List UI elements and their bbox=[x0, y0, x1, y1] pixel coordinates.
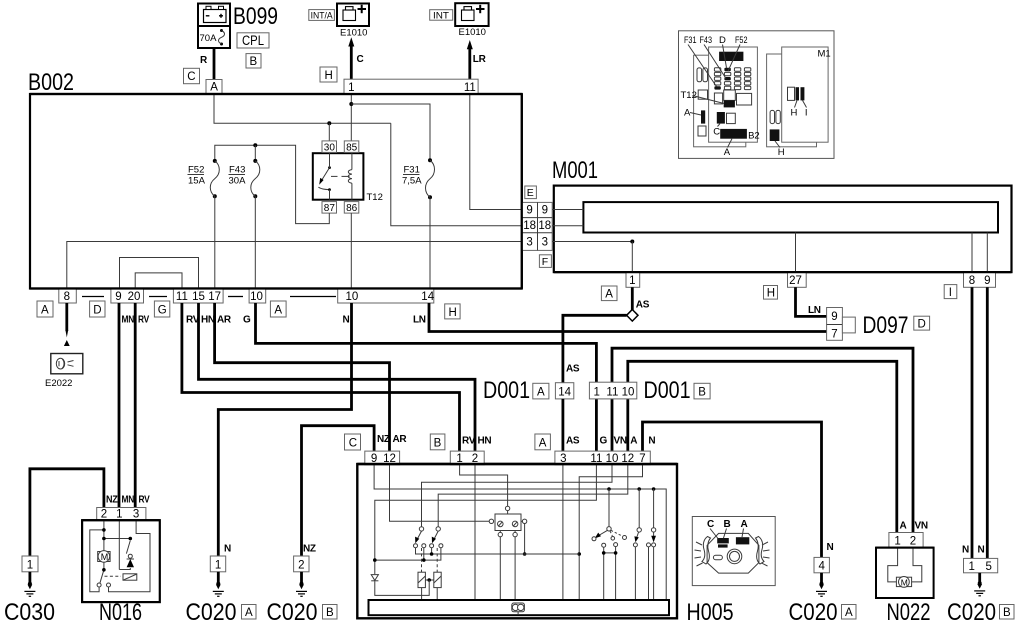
svg-text:3: 3 bbox=[526, 236, 532, 248]
label A box bottom-left bbox=[37, 301, 53, 317]
label H box under M001 bbox=[764, 286, 778, 300]
ground C020A1 bbox=[213, 572, 224, 597]
svg-text:A: A bbox=[900, 521, 907, 532]
node bus fan bbox=[607, 487, 611, 491]
wire C arrow to E1010 left bbox=[348, 37, 354, 79]
svg-text:D: D bbox=[918, 318, 926, 330]
wire R battery to B002 bbox=[213, 48, 216, 80]
svg-text:NZ: NZ bbox=[377, 434, 390, 445]
connector C030 pin 1 bbox=[22, 556, 38, 572]
pin A of B002 bbox=[206, 80, 222, 94]
svg-text:B2: B2 bbox=[748, 131, 760, 142]
B002 bottom pin box 8 bbox=[59, 289, 77, 304]
relay pin 30 label box bbox=[322, 141, 337, 153]
svg-text:30: 30 bbox=[324, 142, 336, 153]
wiper module box bbox=[357, 464, 677, 618]
label A box (pin10) bbox=[270, 301, 286, 317]
wire AS from M001 pin1 bbox=[631, 287, 634, 310]
node bus sw2 bbox=[637, 487, 641, 491]
svg-text:17: 17 bbox=[208, 291, 221, 303]
svg-text:B: B bbox=[326, 607, 334, 619]
svg-text:86: 86 bbox=[346, 203, 358, 214]
module strip C pins 9 12 bbox=[365, 451, 400, 465]
wire N M001 pin8 to C020B pin1 bbox=[971, 287, 974, 558]
svg-text:C: C bbox=[713, 127, 720, 138]
label I box under M001 bbox=[944, 285, 957, 299]
svg-text:1: 1 bbox=[894, 536, 900, 548]
relay T12 bbox=[313, 153, 383, 203]
wire row18 into M001 bbox=[552, 225, 583, 227]
wire C12 to motor left bbox=[390, 465, 490, 521]
wire HN B002 pin15 to module B2 bbox=[199, 303, 476, 451]
svg-text:INT: INT bbox=[433, 10, 450, 20]
svg-text:B: B bbox=[698, 387, 706, 399]
svg-text:15: 15 bbox=[192, 291, 205, 303]
wire A12 to park switch 2 bbox=[438, 465, 628, 527]
wire relay 30 drop bbox=[328, 123, 330, 141]
fuse F43 bbox=[229, 159, 260, 198]
label CPL bbox=[237, 33, 269, 48]
node battery/relay30 bbox=[327, 121, 331, 125]
diode module bbox=[371, 575, 378, 581]
svg-text:A: A bbox=[274, 305, 282, 317]
wire diode to resistors bbox=[375, 580, 429, 595]
label INT/A bbox=[309, 10, 335, 21]
wire NZ C020B pin2 to module C9 bbox=[302, 426, 375, 556]
svg-text:11: 11 bbox=[606, 386, 618, 398]
svg-text:1: 1 bbox=[215, 560, 221, 572]
wire M001 pin27 internal bbox=[795, 233, 797, 273]
wire A3 to pump bar bbox=[562, 465, 564, 600]
svg-text:1: 1 bbox=[27, 560, 33, 572]
connector D001B pins 1 11 10 bbox=[589, 382, 636, 399]
svg-text:A: A bbox=[210, 82, 218, 94]
wire A7 to bus right bbox=[579, 465, 642, 600]
node motor-bus bbox=[523, 552, 527, 556]
svg-text:LN: LN bbox=[413, 315, 426, 326]
wire battery feed inside B002 bbox=[214, 94, 391, 123]
node F43 top bbox=[253, 143, 257, 147]
svg-text:A: A bbox=[537, 387, 545, 399]
ground C020B2 bbox=[296, 572, 307, 597]
connector C020 B pin 2 bbox=[294, 556, 309, 572]
node bus sw3 bbox=[652, 487, 656, 491]
svg-text:N: N bbox=[978, 545, 985, 556]
horn icon E2022 bbox=[51, 354, 83, 374]
svg-text:E1010: E1010 bbox=[459, 27, 486, 38]
svg-text:AS: AS bbox=[636, 300, 650, 311]
svg-text:9: 9 bbox=[984, 275, 990, 287]
wire lower bus bbox=[375, 548, 441, 560]
svg-text:MN: MN bbox=[122, 495, 135, 506]
svg-text:N022: N022 bbox=[887, 599, 931, 625]
wire F52 to pin 17 bbox=[214, 196, 216, 288]
svg-text:RV: RV bbox=[462, 436, 476, 447]
label E box bbox=[525, 186, 537, 199]
M001 inner module bbox=[583, 202, 998, 232]
svg-text:A: A bbox=[741, 519, 748, 530]
svg-text:7,5A: 7,5A bbox=[402, 176, 422, 187]
M001 pin 1 box bbox=[626, 272, 640, 287]
svg-text:A: A bbox=[605, 289, 613, 301]
svg-text:B099: B099 bbox=[233, 3, 278, 30]
svg-text:D097: D097 bbox=[863, 312, 909, 339]
relay coil N016 bbox=[123, 574, 137, 580]
resistor 1 bbox=[418, 572, 425, 600]
node bus c3 bbox=[430, 552, 434, 556]
relay pin 86 label box bbox=[344, 202, 359, 214]
svg-text:4: 4 bbox=[818, 561, 825, 573]
relay N016 box bbox=[82, 520, 160, 602]
connector D097 pins 9 7 bbox=[827, 308, 856, 341]
node N016 a bbox=[102, 528, 106, 532]
svg-text:A: A bbox=[724, 147, 731, 158]
svg-text:F31: F31 bbox=[684, 35, 697, 46]
connector C020 A pin 4 bbox=[814, 557, 829, 572]
resistor 2 bbox=[434, 572, 441, 600]
dashed link resistor 2 bbox=[436, 548, 438, 572]
svg-text:B002: B002 bbox=[28, 69, 74, 96]
wire B2 to pump bar bbox=[474, 465, 476, 600]
svg-text:RV: RV bbox=[139, 495, 151, 506]
svg-text:C020: C020 bbox=[186, 599, 237, 625]
svg-text:C: C bbox=[187, 71, 195, 83]
svg-text:C: C bbox=[349, 438, 357, 450]
label F box bbox=[539, 255, 551, 268]
wire N M001 pin9 to C020B pin5 bbox=[986, 287, 989, 558]
svg-text:NZ: NZ bbox=[303, 544, 316, 555]
svg-text:30A: 30A bbox=[229, 176, 247, 187]
wire resistor link bbox=[425, 579, 433, 581]
label D box bbox=[90, 301, 105, 317]
N016 pin strip 2 1 3 bbox=[97, 508, 146, 521]
svg-text:VN: VN bbox=[614, 436, 627, 447]
wire F43 drop bbox=[254, 145, 256, 161]
svg-text:M1: M1 bbox=[818, 49, 831, 60]
wire pin11top to row9 bbox=[470, 94, 522, 210]
node fan t1 bbox=[602, 551, 606, 555]
svg-text:2: 2 bbox=[910, 536, 916, 548]
label C box module bbox=[345, 434, 361, 450]
label G box bbox=[154, 301, 169, 317]
wire B002 bottom edge redraw bbox=[30, 287, 522, 289]
svg-text:C030: C030 bbox=[4, 599, 55, 625]
svg-text:70A: 70A bbox=[200, 33, 218, 44]
label A box D001A bbox=[533, 383, 549, 399]
inset fusebox location diagram bbox=[679, 31, 835, 159]
svg-text:VN: VN bbox=[915, 521, 928, 532]
svg-text:I: I bbox=[805, 108, 808, 119]
dashed link resistor 1 bbox=[421, 548, 423, 572]
svg-text:9: 9 bbox=[115, 291, 121, 303]
label A box under M001 bbox=[601, 286, 617, 301]
svg-text:M: M bbox=[101, 552, 109, 562]
svg-text:B: B bbox=[434, 438, 442, 450]
svg-text:N: N bbox=[827, 542, 834, 553]
splice diamond AS bbox=[627, 310, 638, 322]
svg-text:8: 8 bbox=[969, 275, 975, 287]
svg-text:HN: HN bbox=[478, 436, 492, 447]
svg-text:LR: LR bbox=[473, 54, 487, 65]
node resistor link bbox=[427, 578, 431, 582]
svg-text:A: A bbox=[539, 438, 547, 450]
svg-text:2: 2 bbox=[101, 509, 107, 521]
svg-text:3: 3 bbox=[542, 236, 548, 248]
wire LN B002 pin14 to D097 pin7 bbox=[429, 303, 827, 332]
module strip B pins 1 2 bbox=[450, 451, 484, 465]
wire M001 pin8 internal bbox=[971, 233, 973, 273]
svg-text:N: N bbox=[343, 315, 350, 326]
wire B002 right edge redraw bbox=[521, 94, 523, 289]
B002 top pin strip pins 1,11 bbox=[344, 79, 478, 94]
svg-text:D: D bbox=[719, 35, 726, 46]
svg-text:F43: F43 bbox=[229, 165, 245, 176]
svg-text:N: N bbox=[224, 544, 231, 555]
connector C020 B pins 1 5 bbox=[964, 558, 998, 573]
wire B1 to motor top bbox=[460, 465, 508, 506]
module strip A pins 3 11 10 12 7 bbox=[555, 451, 650, 465]
svg-text:11: 11 bbox=[464, 82, 476, 94]
svg-text:14: 14 bbox=[558, 386, 571, 398]
node N016 b bbox=[102, 537, 106, 541]
wire AR B002 pin17 to module C12 bbox=[215, 303, 390, 451]
svg-text:B: B bbox=[724, 519, 731, 530]
wire upper bus bbox=[416, 548, 580, 554]
spare pin dashes B002 bottom bbox=[82, 296, 336, 298]
svg-text:F: F bbox=[542, 256, 548, 268]
M001 left pin block 9 18 3 bbox=[522, 202, 552, 250]
wire M001 pin1 internal bbox=[631, 242, 633, 273]
ignition supply E1010 (right) bbox=[455, 3, 488, 26]
B002 bottom pin box 11 15 17 bbox=[173, 289, 223, 304]
ignition supply E1010 (left) bbox=[337, 4, 369, 27]
wire B002 top edge redraw bbox=[30, 93, 522, 95]
node N016 c bbox=[102, 568, 106, 572]
svg-text:27: 27 bbox=[789, 275, 802, 287]
battery B099 bbox=[198, 4, 230, 27]
wash switch 2 bbox=[647, 489, 657, 600]
svg-text:C: C bbox=[357, 54, 364, 65]
svg-text:10: 10 bbox=[622, 386, 635, 398]
svg-text:F31: F31 bbox=[404, 165, 420, 176]
svg-text:AS: AS bbox=[566, 436, 580, 447]
svg-text:AR: AR bbox=[393, 434, 408, 445]
svg-text:9: 9 bbox=[542, 205, 548, 217]
svg-text:F43: F43 bbox=[700, 35, 713, 46]
svg-text:H: H bbox=[778, 147, 785, 158]
svg-text:MN: MN bbox=[122, 315, 135, 326]
svg-text:2: 2 bbox=[298, 560, 304, 572]
label INT bbox=[430, 10, 453, 21]
wire LN M001 pin27 to D097 pin9 bbox=[796, 287, 827, 316]
svg-text:D001: D001 bbox=[644, 377, 691, 404]
svg-text:A: A bbox=[41, 305, 49, 317]
B002 bottom pin box 9 20 bbox=[111, 289, 144, 304]
svg-text:F52: F52 bbox=[188, 165, 204, 176]
wire pin1 branch to F31 bbox=[351, 104, 430, 160]
wire M001 bottom edge redraw bbox=[554, 271, 1012, 273]
node fan t2 bbox=[614, 551, 618, 555]
washer pump icon bbox=[512, 603, 525, 615]
node lower bus left bbox=[373, 558, 377, 562]
fan selector switch bbox=[592, 489, 627, 600]
svg-text:9: 9 bbox=[831, 311, 837, 323]
junction box B002 bbox=[30, 94, 522, 289]
M001 pin 27 box bbox=[788, 272, 807, 287]
fuse F31 bbox=[402, 158, 435, 199]
wire LR arrow to E1010 right bbox=[467, 40, 473, 79]
wire bus pin9-pin15 bbox=[120, 258, 199, 289]
svg-text:C020: C020 bbox=[267, 599, 318, 625]
svg-text:RV: RV bbox=[186, 315, 200, 326]
wire A10 to park switch 1 bbox=[422, 465, 613, 527]
svg-text:N016: N016 bbox=[99, 599, 142, 625]
connector D001A pin 14 bbox=[555, 383, 573, 399]
wire relay 86 to pin 10 bbox=[350, 213, 352, 288]
svg-text:H: H bbox=[767, 288, 775, 300]
svg-text:7: 7 bbox=[831, 329, 837, 341]
svg-text:C020: C020 bbox=[789, 599, 838, 625]
contact circles N016 bbox=[97, 583, 101, 587]
svg-text:H: H bbox=[791, 108, 798, 119]
label H box (pin10-14) bbox=[445, 304, 460, 319]
svg-text:H005: H005 bbox=[687, 599, 734, 625]
wire M001 pin9 internal bbox=[986, 233, 988, 273]
motor N022 box bbox=[876, 548, 934, 598]
svg-text:M001: M001 bbox=[552, 157, 598, 184]
ground C020B15 bbox=[974, 573, 985, 596]
wire row9 into M001 bbox=[552, 209, 583, 211]
svg-text:R: R bbox=[200, 55, 208, 66]
motor block bbox=[489, 506, 527, 600]
wire pin8 arrow to E2022 bbox=[64, 303, 70, 346]
svg-text:CPL: CPL bbox=[242, 33, 264, 48]
wire N016 top edge redraw bbox=[82, 519, 160, 521]
svg-text:E1010: E1010 bbox=[340, 28, 367, 39]
wire N B002 pin10b to C020A pin1 bbox=[218, 303, 351, 556]
N016 internals bbox=[90, 520, 150, 592]
svg-text:11: 11 bbox=[176, 291, 188, 303]
svg-text:N: N bbox=[962, 545, 969, 556]
wire RV B002 pin20 to N016 pin3 bbox=[134, 303, 137, 508]
wire N022 top edge redraw bbox=[876, 547, 934, 549]
svg-text:A: A bbox=[845, 607, 853, 619]
svg-text:18: 18 bbox=[523, 220, 536, 232]
B002 bottom pin box 10 14 bbox=[338, 289, 435, 304]
wire NZ N016 pin2 to C030 pin1 bbox=[30, 469, 104, 556]
svg-text:B: B bbox=[1003, 607, 1011, 619]
wire module top edge redraw bbox=[357, 463, 677, 465]
svg-text:3: 3 bbox=[133, 509, 139, 521]
svg-text:10: 10 bbox=[346, 291, 359, 303]
svg-text:D001: D001 bbox=[483, 377, 530, 404]
svg-text:8: 8 bbox=[64, 291, 70, 303]
wire F31 to pin 14 bbox=[429, 197, 431, 288]
svg-text:14: 14 bbox=[421, 291, 434, 303]
svg-text:NZ: NZ bbox=[106, 495, 118, 506]
svg-text:5: 5 bbox=[985, 561, 991, 573]
module interior wiring bbox=[374, 465, 666, 600]
wire A11 to diode branch bbox=[375, 465, 597, 574]
svg-text:G: G bbox=[243, 315, 251, 326]
B002 bottom pin box 10 bbox=[249, 289, 266, 304]
relay pin 87 label box bbox=[322, 202, 337, 214]
wire pin1 to relay 85 bbox=[350, 94, 352, 141]
svg-text:M: M bbox=[901, 577, 908, 587]
wire G B002 pin10 to module pin11 bbox=[256, 303, 597, 451]
svg-text:E: E bbox=[527, 187, 534, 199]
node lower bus c2 bbox=[422, 558, 426, 562]
wire AS pin14 to module A3 bbox=[562, 399, 565, 451]
wire relay 87 to fuse bus bbox=[215, 145, 329, 223]
svg-text:AS: AS bbox=[566, 364, 580, 375]
park switch 2 bbox=[430, 527, 443, 548]
svg-text:1: 1 bbox=[593, 386, 599, 398]
svg-text:G: G bbox=[158, 305, 167, 317]
svg-text:I: I bbox=[949, 287, 952, 299]
ground C020A4 bbox=[816, 573, 827, 597]
wire row3 to node bbox=[552, 241, 632, 243]
motor N016 bbox=[98, 551, 110, 563]
pump bar bbox=[369, 600, 670, 615]
svg-text:85: 85 bbox=[346, 142, 358, 153]
svg-text:1: 1 bbox=[629, 275, 635, 287]
svg-text:18: 18 bbox=[538, 220, 551, 232]
svg-text:15A: 15A bbox=[188, 176, 206, 187]
svg-text:A: A bbox=[630, 436, 637, 447]
svg-text:T12: T12 bbox=[367, 192, 383, 203]
svg-text:INT/A: INT/A bbox=[311, 10, 333, 20]
svg-text:D: D bbox=[93, 305, 101, 317]
node N016 d bbox=[129, 537, 133, 541]
svg-text:1: 1 bbox=[968, 561, 974, 573]
label B box module bbox=[430, 434, 445, 450]
svg-text:H: H bbox=[325, 70, 333, 82]
svg-text:C020: C020 bbox=[947, 599, 996, 625]
motor N022 pins 1 2 bbox=[889, 533, 923, 548]
wire F43 to pin 10 bbox=[254, 196, 256, 288]
stalk switch H005 bbox=[692, 517, 775, 586]
wire RV B002 pin11 to module B1 bbox=[182, 303, 460, 451]
svg-text:AR: AR bbox=[217, 315, 232, 326]
M001 pin 8 9 box bbox=[964, 272, 996, 287]
svg-text:9: 9 bbox=[526, 205, 532, 217]
wire pin 8 to row3 bbox=[67, 242, 522, 289]
wire AS to D001A pin14 bbox=[563, 315, 627, 382]
svg-text:1: 1 bbox=[116, 509, 122, 521]
svg-text:HN: HN bbox=[201, 315, 215, 326]
wire A module A12 to N022 pin1 bbox=[628, 361, 897, 532]
node pin1/F31 branch bbox=[349, 102, 353, 106]
svg-text:H: H bbox=[449, 307, 457, 319]
label C box bbox=[184, 68, 200, 83]
wire bus pin20-pin11 bbox=[135, 273, 182, 289]
label H box bbox=[320, 67, 337, 82]
svg-text:20: 20 bbox=[128, 291, 141, 303]
label B bbox=[246, 54, 261, 68]
fuse 70A in B099 bbox=[198, 26, 230, 48]
svg-text:B: B bbox=[250, 56, 258, 68]
label D box bbox=[914, 316, 930, 330]
wire VN module A10 to N022 pin2 bbox=[612, 348, 913, 532]
svg-text:RV: RV bbox=[138, 315, 150, 326]
svg-text:E2022: E2022 bbox=[45, 378, 72, 389]
svg-text:1: 1 bbox=[348, 82, 354, 94]
node M001 pin1 bbox=[630, 240, 634, 244]
svg-text:G: G bbox=[600, 436, 608, 447]
svg-text:N: N bbox=[648, 436, 655, 447]
node bus right end bbox=[577, 552, 581, 556]
